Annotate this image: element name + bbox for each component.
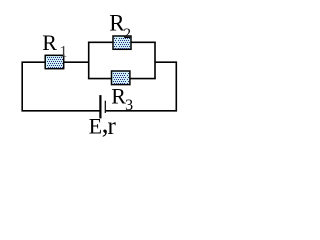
- svg-text:R: R: [42, 30, 57, 55]
- svg-text:1: 1: [59, 44, 67, 61]
- svg-text:r: r: [108, 113, 117, 140]
- svg-text:R: R: [111, 83, 126, 108]
- svg-text:2: 2: [124, 26, 132, 42]
- svg-text:E: E: [89, 114, 102, 139]
- svg-text:3: 3: [125, 97, 133, 114]
